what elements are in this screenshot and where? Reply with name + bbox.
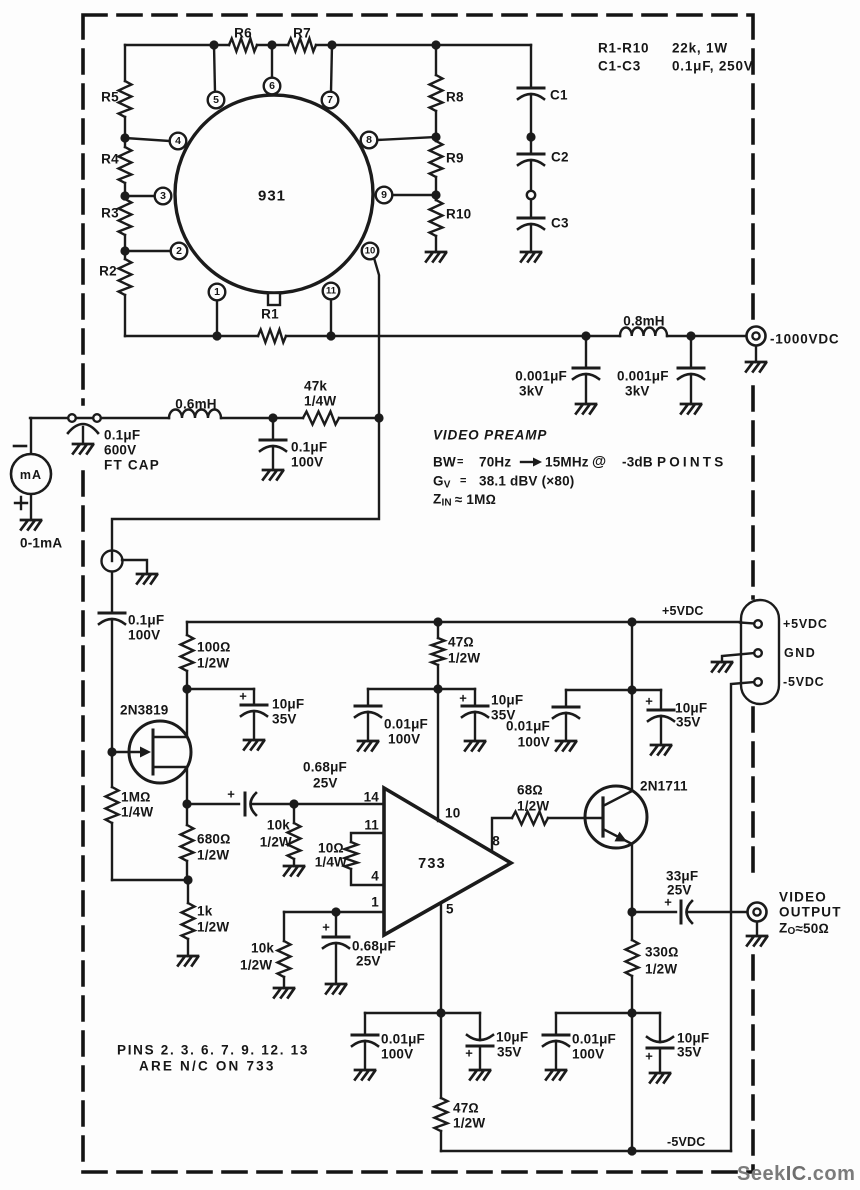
resistor 1k 1/2W — [182, 880, 195, 956]
svg-text:15MHz: 15MHz — [545, 455, 589, 470]
PMT tube 931 envelope — [175, 95, 373, 293]
svg-text:C2: C2 — [551, 150, 569, 165]
wire pin 1 — [284, 911, 384, 913]
spec line BW — [433, 454, 726, 470]
svg-text:680Ω: 680Ω — [197, 832, 231, 847]
svg-text:35V: 35V — [497, 1045, 522, 1060]
capacitor 10uF 35V (JFET drain) — [239, 689, 267, 741]
svg-text:=: = — [460, 475, 467, 487]
svg-text:1/2W: 1/2W — [240, 958, 272, 973]
resistor 10k 1/2W (pin1) — [278, 912, 291, 988]
svg-text:ZIN≈ 1MΩ: ZIN≈ 1MΩ — [433, 492, 496, 509]
junction dots HV rail — [581, 331, 695, 340]
wire: top dynode rail — [125, 44, 531, 46]
svg-text:8: 8 — [492, 834, 500, 849]
svg-text:1/2W: 1/2W — [197, 656, 229, 671]
svg-text:38.1 dBV (×80): 38.1 dBV (×80) — [479, 474, 574, 489]
svg-text:0.1μF, 250V: 0.1μF, 250V — [672, 59, 754, 74]
capacitor 0.68uF 25V (pin1) — [322, 912, 349, 984]
wire pin6 to rail — [271, 45, 273, 78]
ground below R10 — [426, 252, 446, 262]
svg-text:100V: 100V — [291, 455, 323, 470]
resistor 680ohm 1/2W — [181, 804, 194, 880]
svg-text:R9: R9 — [446, 151, 464, 166]
svg-text:33μF: 33μF — [666, 869, 698, 884]
svg-text:C1-C3: C1-C3 — [598, 59, 641, 74]
wire rail down to collector node — [631, 622, 633, 690]
svg-text:R5: R5 — [101, 90, 119, 105]
resistor R9 — [430, 141, 443, 177]
capacitor 10uF 35V (lower left pol) — [465, 1013, 493, 1070]
svg-text:10μF: 10μF — [272, 697, 304, 712]
wire 330 node down to -5 rail — [631, 1013, 633, 1151]
svg-text:VIDEO: VIDEO — [779, 890, 827, 905]
meter plus sign — [15, 497, 27, 509]
capacitor 0.01uF 100V (lower right) — [543, 1013, 569, 1070]
capacitor 10uF 35V (collector bypass) — [645, 690, 674, 745]
junction dot emitter node — [627, 907, 636, 916]
svg-text:100V: 100V — [128, 628, 160, 643]
svg-text:R4: R4 — [101, 152, 119, 167]
resistor 100ohm 1/2W — [181, 622, 194, 689]
svg-text:1MΩ: 1MΩ — [121, 790, 151, 805]
meter mA — [11, 454, 51, 494]
pin 5 — [208, 92, 225, 109]
jack shell ground tab — [122, 560, 147, 574]
pin GND — [754, 649, 762, 657]
capacitor 0.001uF 3kV (left) — [573, 336, 599, 404]
resistor 47ohm 1/2W top — [432, 622, 445, 689]
op-amp U1 733 — [384, 788, 511, 935]
junction dot lower right node — [627, 1008, 636, 1017]
wire 1M bottom to 1k node — [112, 879, 188, 881]
inductor 0.6mH — [169, 410, 221, 419]
spec line Gv — [433, 474, 574, 491]
svg-text:100V: 100V — [381, 1047, 413, 1062]
svg-text:5: 5 — [446, 902, 454, 917]
capacitor 0.01uF 100V (left bypass) — [355, 689, 381, 741]
capacitor 0.01uF 100V (lower left) — [352, 1013, 378, 1070]
pin +5VDC — [754, 620, 762, 628]
pin 11 bracket and 10ohm 1/4W — [345, 833, 385, 885]
capacitor 0.01uF 100V (right bypass) — [553, 690, 579, 741]
svg-text:1/4W: 1/4W — [315, 855, 347, 870]
svg-text:5: 5 — [213, 94, 219, 106]
svg-text:R1: R1 — [261, 307, 279, 322]
resistor R4 — [119, 147, 132, 183]
svg-text:1/2W: 1/2W — [453, 1116, 485, 1131]
svg-text:POINTS: POINTS — [657, 455, 726, 470]
svg-text:R6: R6 — [234, 26, 252, 41]
ground below mid bypass — [465, 741, 485, 751]
wire pin4 to divider — [125, 138, 170, 141]
ground below video connector — [747, 922, 767, 946]
svg-text:mA: mA — [20, 468, 42, 482]
resistor R5 — [119, 81, 132, 117]
svg-text:0-1mA: 0-1mA — [20, 536, 62, 551]
wire pin5 to rail — [214, 45, 215, 92]
junction dot pin5 node — [436, 1008, 445, 1017]
svg-text:10k: 10k — [251, 941, 274, 956]
pin -5VDC — [754, 678, 762, 686]
resistor 47k 1/4W — [303, 412, 339, 425]
svg-text:0.01μF: 0.01μF — [384, 717, 428, 732]
resistor R3 — [119, 199, 132, 235]
svg-text:35V: 35V — [677, 1045, 702, 1060]
svg-text:+: + — [645, 1049, 653, 1064]
svg-text:3kV: 3kV — [519, 384, 544, 399]
svg-text:47k: 47k — [304, 379, 327, 394]
svg-text:1: 1 — [214, 286, 220, 298]
ground below collector bypass — [651, 745, 671, 755]
wire pin 5 drop — [440, 903, 442, 1013]
svg-text:25V: 25V — [356, 954, 381, 969]
svg-text:PINS 2. 3. 6. 7. 9. 12. 13: PINS 2. 3. 6. 7. 9. 12. 13 — [117, 1043, 309, 1058]
svg-text:0.01μF: 0.01μF — [572, 1032, 616, 1047]
ground below 10k pin1 — [274, 988, 294, 998]
svg-text:1/2W: 1/2W — [448, 651, 480, 666]
transistor Q1 2N3819 — [112, 689, 191, 804]
svg-text:10k: 10k — [267, 818, 290, 833]
svg-text:14: 14 — [364, 790, 380, 805]
svg-text:+5VDC: +5VDC — [783, 617, 828, 631]
svg-text:0.1μF: 0.1μF — [291, 440, 327, 455]
svg-text:10μF: 10μF — [491, 693, 523, 708]
svg-text:+: + — [227, 787, 235, 802]
svg-text:733: 733 — [418, 856, 446, 872]
svg-text:1/2W: 1/2W — [517, 799, 549, 814]
svg-text:1/2W: 1/2W — [197, 920, 229, 935]
junction dots R1 rail — [212, 331, 221, 340]
resistor 47ohm 1/2W bottom — [435, 1013, 448, 1151]
svg-text:22k, 1W: 22k, 1W — [672, 41, 728, 56]
svg-text:GV: GV — [433, 474, 451, 491]
svg-text:R2: R2 — [99, 264, 117, 279]
wire pin9 to R9/R10 node — [392, 194, 436, 196]
pin 9 — [376, 187, 393, 204]
junction dots left divider — [120, 133, 129, 142]
svg-text:+: + — [459, 691, 467, 706]
svg-text:R8: R8 — [446, 90, 464, 105]
capacitor 0.1uF 100V coupling — [99, 613, 125, 752]
wire -5VDC pin down — [731, 682, 754, 1151]
resistor R8 — [430, 75, 443, 111]
wire pin 8 to 68ohm — [492, 818, 602, 850]
ground below 0.68uF pin1 — [326, 984, 346, 994]
wire: anode down to preamp input — [112, 418, 379, 551]
wire GND pin — [722, 653, 754, 662]
capacitor C2 — [518, 154, 544, 165]
svg-text:3: 3 — [160, 190, 166, 202]
svg-text:35V: 35V — [272, 712, 297, 727]
connector -1000VDC — [747, 327, 766, 346]
svg-text:1/4W: 1/4W — [121, 805, 153, 820]
svg-text:3kV: 3kV — [625, 384, 650, 399]
svg-text:0.001μF: 0.001μF — [617, 369, 669, 384]
wire lower bypass row left — [365, 1012, 480, 1014]
junction dots R8/R9 chain — [431, 132, 440, 141]
svg-text:10Ω: 10Ω — [318, 841, 344, 856]
connector VIDEO OUTPUT — [748, 903, 767, 922]
resistor R7 — [288, 39, 316, 52]
resistor 68ohm 1/2W — [512, 812, 548, 825]
wire: left divider chain — [124, 45, 126, 336]
junction dot C1/C2 — [526, 132, 535, 141]
svg-text:70Hz: 70Hz — [479, 455, 511, 470]
svg-text:931: 931 — [258, 188, 286, 205]
svg-text:+: + — [645, 694, 653, 709]
svg-text:=: = — [457, 456, 464, 468]
svg-text:R3: R3 — [101, 206, 119, 221]
junction dots preamp left — [107, 684, 298, 884]
svg-text:1k: 1k — [197, 904, 213, 919]
capacitor C3 — [518, 218, 544, 229]
svg-text:100V: 100V — [388, 732, 420, 747]
svg-text:0.001μF: 0.001μF — [515, 369, 567, 384]
svg-text:1/2W: 1/2W — [197, 848, 229, 863]
svg-text:11: 11 — [364, 818, 379, 833]
capacitor 0.1uF 100V (anode filter) — [260, 418, 286, 470]
resistor R2 — [119, 259, 132, 295]
dashed enclosure border — [83, 15, 753, 1172]
wire bypass row right — [566, 689, 661, 691]
svg-text:1: 1 — [371, 895, 379, 910]
svg-text:10μF: 10μF — [496, 1030, 528, 1045]
ground below 10k pin14 — [284, 866, 304, 876]
ground lower right 10uF — [650, 1073, 670, 1083]
junction dots anode line — [268, 413, 383, 422]
svg-text:1/2W: 1/2W — [260, 835, 292, 850]
pin 3 — [155, 188, 172, 205]
ground of jack shell — [137, 574, 157, 584]
svg-text:ARE N/C ON 733: ARE N/C ON 733 — [139, 1059, 276, 1074]
pin 10 — [362, 243, 379, 260]
open junction C2/C3 node — [527, 191, 535, 199]
wire pin 10 riser — [437, 689, 439, 821]
ground lower left 0.01uF — [355, 1070, 375, 1080]
svg-text:25V: 25V — [313, 776, 338, 791]
svg-text:0.01μF: 0.01μF — [506, 719, 550, 734]
wire pin3 to divider — [125, 195, 155, 197]
junction dot pin1 node — [331, 907, 340, 916]
ground lower left 10uF — [470, 1070, 490, 1080]
svg-text:35V: 35V — [676, 715, 701, 730]
capacitor 10uF 35V (mid bypass) — [459, 689, 488, 741]
ground below right bypass — [556, 741, 576, 751]
ground of GND pin — [712, 662, 732, 672]
svg-text:1/4W: 1/4W — [304, 394, 336, 409]
svg-text:-5VDC: -5VDC — [667, 1135, 706, 1149]
svg-text:R7: R7 — [293, 26, 311, 41]
svg-text:7: 7 — [327, 94, 333, 106]
svg-text:4: 4 — [371, 869, 379, 884]
svg-text:10: 10 — [445, 806, 460, 821]
svg-text:47Ω: 47Ω — [448, 635, 474, 650]
svg-text:2: 2 — [176, 245, 182, 257]
wire +5VDC into shell — [740, 623, 754, 624]
svg-text:GND: GND — [784, 646, 816, 660]
wire jack to coupling cap — [111, 572, 113, 613]
wire 100ohm node to 10uF — [187, 688, 254, 690]
svg-text:10μF: 10μF — [675, 701, 707, 716]
wire pin8 to R8/R9 node — [377, 137, 436, 140]
capacitor C1 — [518, 88, 544, 99]
junction dot -5 rail — [627, 1146, 636, 1155]
svg-text:47Ω: 47Ω — [453, 1101, 479, 1116]
svg-text:10: 10 — [365, 246, 376, 257]
svg-text:C3: C3 — [551, 216, 569, 231]
svg-text:600V: 600V — [104, 443, 136, 458]
svg-text:2N3819: 2N3819 — [120, 703, 169, 718]
capacitor 0.68uF 25V series — [187, 787, 294, 816]
wire pin1 to R1 rail — [216, 300, 218, 336]
svg-text:FT CAP: FT CAP — [104, 458, 160, 473]
svg-text:0.1μF: 0.1μF — [128, 613, 164, 628]
ground below meter — [21, 520, 41, 530]
svg-text:+: + — [322, 920, 330, 935]
wire: meter stem bottom — [30, 494, 32, 520]
pin 8 — [361, 132, 378, 149]
capacitor 33uF 25V output — [632, 895, 747, 924]
svg-text:1/2W: 1/2W — [645, 962, 677, 977]
pin 6 — [264, 78, 281, 95]
capacitor FT CAP 0.1uF 600V — [68, 424, 98, 444]
svg-text:+: + — [465, 1046, 473, 1061]
wire pin7 to rail — [331, 45, 332, 92]
svg-text:100Ω: 100Ω — [197, 640, 231, 655]
svg-text:25V: 25V — [667, 883, 692, 898]
meter minus sign — [14, 445, 26, 448]
wire -5VDC bottom rail — [441, 1150, 731, 1152]
svg-text:-5VDC: -5VDC — [783, 675, 825, 689]
svg-text:0.6mH: 0.6mH — [175, 397, 217, 412]
ground below FT cap — [73, 444, 93, 454]
svg-text:4: 4 — [175, 135, 181, 147]
inductor 0.8mH — [620, 328, 667, 337]
svg-text:0.8mH: 0.8mH — [623, 314, 665, 329]
wire pin2 to divider — [125, 250, 171, 252]
svg-text:0.68μF: 0.68μF — [352, 939, 396, 954]
feedthrough terminal circles — [68, 414, 76, 422]
svg-text:6: 6 — [269, 80, 275, 92]
wire: R1 bottom rail to -1000VDC — [125, 335, 746, 337]
wire: meter stem top — [30, 418, 32, 454]
wire: +5VDC rail — [187, 621, 754, 623]
svg-text:OUTPUT: OUTPUT — [779, 905, 842, 920]
svg-text:10μF: 10μF — [677, 1031, 709, 1046]
ground below left bypass — [358, 741, 378, 751]
resistor R6 — [229, 39, 257, 52]
ground below left 3kV cap — [576, 404, 596, 414]
wire: anode line with feedthrough — [30, 417, 379, 419]
input jack — [102, 551, 123, 572]
svg-text:11: 11 — [326, 286, 337, 297]
svg-text:-1000VDC: -1000VDC — [770, 332, 839, 347]
svg-text:330Ω: 330Ω — [645, 945, 679, 960]
svg-text:68Ω: 68Ω — [517, 783, 543, 798]
ground below -1000VDC connector — [746, 346, 766, 372]
svg-text:VIDEO PREAMP: VIDEO PREAMP — [433, 428, 547, 443]
ground below anode filter cap — [263, 470, 283, 480]
capacitor 0.001uF 3kV (right) — [678, 336, 704, 404]
junction dots bypass rows — [433, 617, 636, 694]
photocathode square marker — [268, 293, 280, 305]
wire to pin 14 — [294, 803, 384, 805]
pin 7 — [322, 92, 339, 109]
power connector shell — [741, 600, 779, 704]
wire lower bypass row right — [556, 1012, 660, 1014]
svg-text:8: 8 — [366, 134, 372, 146]
svg-text:0.1μF: 0.1μF — [104, 428, 140, 443]
resistor R1 — [258, 330, 286, 343]
wire pin10 down to 47k node — [374, 258, 379, 418]
svg-text:-3dB: -3dB — [622, 455, 653, 470]
svg-text:SeekIC.com: SeekIC.com — [737, 1163, 855, 1185]
pin 11 — [323, 283, 340, 300]
wire pin11 to R1 rail — [330, 299, 332, 336]
svg-text:0.01μF: 0.01μF — [381, 1032, 425, 1047]
resistor R10 — [430, 200, 443, 236]
pin 1 — [209, 284, 226, 301]
svg-text:C1: C1 — [550, 88, 568, 103]
resistor 10k 1/2W (pin14) — [288, 804, 301, 866]
pin 2 — [171, 243, 188, 260]
capacitor 10uF 35V (lower right pol) — [645, 1013, 673, 1073]
svg-text:+5VDC: +5VDC — [662, 604, 704, 618]
junction dots top rail — [209, 40, 218, 49]
svg-text:ZO≈50Ω: ZO≈50Ω — [779, 921, 829, 937]
resistor 330ohm 1/2W — [626, 912, 639, 1013]
ground below right 3kV cap — [681, 404, 701, 414]
ground below drain 10uF — [244, 740, 264, 750]
svg-text:2N1711: 2N1711 — [640, 779, 688, 794]
wire: R8-R10 chain — [435, 45, 437, 252]
pin 4 — [170, 133, 187, 150]
wire: C1-C3 chain — [530, 45, 532, 252]
svg-text:R1-R10: R1-R10 — [598, 41, 649, 56]
svg-text:0.68μF: 0.68μF — [303, 760, 347, 775]
svg-text:+: + — [239, 689, 247, 704]
wire bypass row left — [368, 688, 475, 690]
ground lower right 0.01uF — [546, 1070, 566, 1080]
resistor 1Mohm 1/4W gate — [106, 752, 119, 880]
ground below 1k — [178, 956, 198, 966]
ground below C3 — [521, 252, 541, 262]
svg-text:100V: 100V — [518, 735, 550, 750]
svg-text:R10: R10 — [446, 207, 471, 222]
spec line Zin — [433, 492, 496, 509]
svg-text:100V: 100V — [572, 1047, 604, 1062]
transistor Q2 2N1711 — [585, 690, 647, 912]
svg-text:@: @ — [592, 454, 606, 470]
svg-text:9: 9 — [381, 189, 387, 201]
svg-text:BW: BW — [433, 455, 456, 470]
